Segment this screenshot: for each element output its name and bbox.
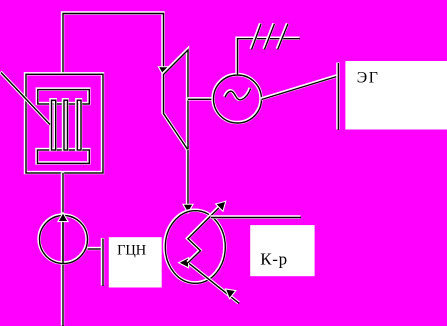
arrow: steam into condenser (down) <box>184 205 192 212</box>
turbine (trapezoid) <box>163 50 188 151</box>
label box К-р (white rectangle) <box>250 225 314 276</box>
fuel rod 2 <box>64 100 68 150</box>
condenser ellipse <box>165 210 226 283</box>
wire: generator to ЭГ terminal (diagonal) <box>261 76 338 100</box>
wire: turbine shaft to generator <box>188 97 214 101</box>
wire: cooling outlet horizontal line <box>211 215 302 219</box>
label text К-р <box>260 250 288 269</box>
fuel rod 1 <box>51 100 56 150</box>
wire: cooling water inlet (bottom-right diagonal) <box>188 262 240 303</box>
cooling coil zigzag and outlet diagonal <box>188 204 223 262</box>
arrow: condensate out (left) at zigzag base <box>180 259 188 267</box>
three-phase slash 2 <box>264 24 274 50</box>
reactor bottom plate <box>37 150 89 164</box>
label box ГЦН (white rectangle) <box>109 237 162 287</box>
wire: main steam line, reactor top to turbine inlet <box>63 13 164 74</box>
arrow: steam flow into turbine (down) <box>159 67 167 74</box>
svg-text:ЭГ: ЭГ <box>357 70 380 87</box>
label box ЭГ (white rectangle) <box>345 61 447 130</box>
ЭГ terminal bar <box>336 63 340 131</box>
arrow: cooling water outflow (up-right) <box>217 202 225 210</box>
arrow: cooling water inflow (up-left) <box>226 290 235 298</box>
three-phase slash 1 <box>251 24 261 50</box>
fuel rod 3 <box>77 100 81 150</box>
wire: pump to ГЦН terminal bar <box>87 247 103 251</box>
reactor top plate <box>37 89 89 104</box>
svg-text:К-р: К-р <box>260 250 288 269</box>
generator sine symbol <box>225 88 251 100</box>
wire: reactor bottom through pump to image bottom <box>61 173 65 326</box>
reactor vessel (outer rectangle) <box>26 74 104 173</box>
wire: turbine exhaust to condenser <box>186 150 190 206</box>
label text ЭГ <box>357 70 380 87</box>
three-phase slash 3 <box>277 24 288 50</box>
ГЦН terminal bar <box>101 238 105 286</box>
control rod diagonal line <box>1 72 51 125</box>
wire: pipe segment inside pump <box>62 216 64 263</box>
svg-text:ГЦН: ГЦН <box>117 242 146 258</box>
generator circle <box>213 75 262 124</box>
label text ГЦН <box>117 242 146 258</box>
arrow: coolant flow up in pump <box>59 214 67 221</box>
wire: generator output riser and bus <box>237 38 300 75</box>
pump circle <box>39 215 88 264</box>
